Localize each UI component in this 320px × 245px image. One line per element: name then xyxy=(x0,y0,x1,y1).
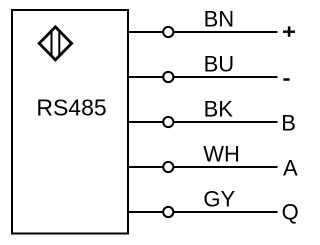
pin label - xyxy=(283,78,289,81)
svg-text:Q: Q xyxy=(282,200,299,225)
svg-text:WH: WH xyxy=(203,141,240,166)
svg-text:GY: GY xyxy=(203,186,235,211)
wire WH xyxy=(128,166,278,168)
wire BK xyxy=(128,121,278,123)
inductive proximity sensor symbol xyxy=(39,27,71,60)
pin label + xyxy=(283,26,295,36)
terminal circle BU xyxy=(163,72,173,82)
svg-text:BU: BU xyxy=(204,51,235,76)
wire GY xyxy=(128,211,278,213)
svg-text:BN: BN xyxy=(204,6,235,31)
terminal circle WH xyxy=(163,162,173,172)
svg-text:RS485: RS485 xyxy=(36,95,106,121)
wire BU xyxy=(128,76,278,78)
wire BN xyxy=(128,31,278,33)
terminal circle BK xyxy=(163,117,173,127)
sensor body box U1 xyxy=(12,10,128,234)
svg-text:B: B xyxy=(281,110,296,135)
terminal circle GY xyxy=(163,207,173,217)
terminal circle BN xyxy=(163,27,173,37)
svg-text:BK: BK xyxy=(204,96,234,121)
svg-text:A: A xyxy=(283,155,298,180)
